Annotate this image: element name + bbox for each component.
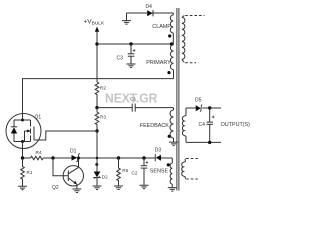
ground under Q2 emitter xyxy=(72,189,81,193)
svg-text:SENSE: SENSE xyxy=(150,168,169,174)
phase dot clamp xyxy=(168,34,171,37)
wire: top rail y=44 to transformer xyxy=(97,43,174,45)
output winding (lower) xyxy=(182,108,186,142)
node dot D1 cathode / collector xyxy=(77,157,80,160)
diode D2 (zener) xyxy=(94,157,109,186)
svg-text:Q1: Q1 xyxy=(35,115,42,121)
node +VBULK supply arrow xyxy=(84,19,105,45)
svg-text:FEEDBACK: FEEDBACK xyxy=(140,123,169,129)
output winding 2 (lower, dashed) xyxy=(182,159,186,180)
wire: D4 clamp line y=13 xyxy=(127,12,174,14)
dashed lead secondary bottom xyxy=(185,62,196,64)
transistor Q2 xyxy=(52,158,84,191)
wire: output bottom rail xyxy=(186,141,221,143)
wire: gate line to Q1 xyxy=(34,131,97,140)
ground under feedback winding xyxy=(169,142,178,146)
sense winding xyxy=(170,158,172,188)
node dot R3 bottom / gate line xyxy=(95,129,98,132)
node dot source xyxy=(21,156,24,159)
node dot R4 right / Q2 base xyxy=(51,156,54,159)
wire: bottom rail y=158 xyxy=(23,157,173,159)
capacitor C4 xyxy=(199,108,215,142)
diode D1 (zener) xyxy=(70,149,80,163)
node dot VBULK rail / top rail xyxy=(95,42,98,45)
phase dot feedback xyxy=(168,135,171,138)
wire: Q2 collector xyxy=(78,158,80,167)
svg-text:CLAMP: CLAMP xyxy=(152,24,171,30)
resistor R1 xyxy=(21,158,33,186)
svg-text:C1: C1 xyxy=(130,96,136,101)
node dot C4 bottom xyxy=(208,141,211,144)
resistor R5 xyxy=(117,156,129,186)
svg-text:D3: D3 xyxy=(155,147,162,153)
svg-text:R5: R5 xyxy=(122,168,128,173)
ground under C3 xyxy=(127,64,136,68)
ground under D2 xyxy=(93,186,102,190)
svg-text:R3: R3 xyxy=(100,115,106,120)
wire: Q1 drain from drain line xyxy=(22,114,24,120)
feedback winding xyxy=(170,108,174,143)
svg-text:R1: R1 xyxy=(27,170,33,175)
ground at D4 anode xyxy=(122,13,131,24)
svg-text:OUTPUT(S): OUTPUT(S) xyxy=(221,122,251,128)
phase dot sense xyxy=(167,163,170,166)
diode D4 xyxy=(146,4,154,16)
primary winding xyxy=(170,44,173,79)
diode D5 xyxy=(186,98,221,112)
wire: VBULK rail down to drain line xyxy=(96,44,98,82)
svg-text:C3: C3 xyxy=(117,56,124,62)
capacitor C3 xyxy=(117,44,136,64)
wire: feedback line with C1 xyxy=(97,107,174,109)
svg-text:+VBULK: +VBULK xyxy=(84,19,105,27)
wire: primary bottom / drain line xyxy=(23,79,174,114)
transformer core xyxy=(177,8,179,191)
svg-text:D4: D4 xyxy=(146,4,153,10)
diode D3 xyxy=(155,147,162,161)
wire: Q1 source to bottom rail xyxy=(22,142,24,159)
svg-text:PRIMARY: PRIMARY xyxy=(146,60,171,66)
dashed lead winding2 bottom xyxy=(186,178,198,180)
capacitor C1 xyxy=(130,96,136,111)
clamp winding xyxy=(170,13,173,44)
svg-text:R4: R4 xyxy=(36,150,42,155)
svg-text:D5: D5 xyxy=(195,98,202,104)
ground under R1 xyxy=(18,186,27,190)
svg-text:C4: C4 xyxy=(199,122,206,128)
wire: rail down to bottom line xyxy=(96,131,98,158)
node dot C3 top xyxy=(129,42,132,45)
ground under C2 xyxy=(140,185,149,189)
dashed lead secondary top xyxy=(185,15,204,17)
svg-text:R2: R2 xyxy=(100,86,106,91)
resistor R4 xyxy=(31,150,44,160)
svg-text:Q2: Q2 xyxy=(52,185,59,191)
svg-text:C2: C2 xyxy=(132,171,138,176)
transistor Q1 (power MOSFET) xyxy=(6,114,41,149)
svg-text:D2: D2 xyxy=(102,175,108,180)
resistor R2 xyxy=(95,82,106,108)
ground under sense winding xyxy=(168,188,177,192)
node dot D5/C4 xyxy=(208,106,211,109)
resistor R3 xyxy=(95,108,106,131)
dashed lead winding2 top xyxy=(186,158,198,160)
svg-text:D1: D1 xyxy=(70,149,77,155)
phase dot primary xyxy=(167,71,170,74)
node dot R2/R3/C1 xyxy=(95,106,98,109)
ground under R5 xyxy=(114,186,123,190)
capacitor C2 xyxy=(132,156,149,185)
node dot clamp/primary junction xyxy=(170,42,173,45)
secondary winding (upper) xyxy=(182,16,185,63)
